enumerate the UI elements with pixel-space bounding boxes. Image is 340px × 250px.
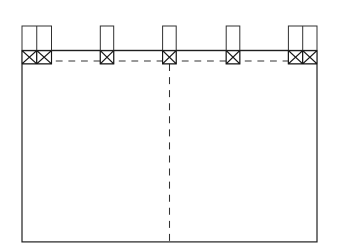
horizontal dashed datum line xyxy=(56,60,289,62)
fixing symbol 3 (crossed box) xyxy=(163,51,177,64)
wall panel outline xyxy=(22,51,317,242)
anchor channel 1 (double, top-left) xyxy=(22,26,52,64)
anchor channel 2 (single) xyxy=(100,26,113,64)
fixing symbol 5b (crossed box) xyxy=(303,51,317,64)
fixing symbol 4 (crossed box) xyxy=(226,51,240,64)
anchor channel 4 (single) xyxy=(226,26,240,64)
fixing symbol 1a (crossed box) xyxy=(22,51,37,64)
vertical dashed centerline xyxy=(169,64,171,241)
fixing symbol 2 (crossed box) xyxy=(100,51,113,64)
fixing symbol 1b (crossed box) xyxy=(37,51,52,64)
anchor channel 5 (double, top-right) xyxy=(288,26,317,64)
fixing symbol 5a (crossed box) xyxy=(288,51,302,64)
wall top edge (redrawn over anchors) xyxy=(22,50,317,52)
anchor channel 3 (single, centre) xyxy=(163,26,177,64)
